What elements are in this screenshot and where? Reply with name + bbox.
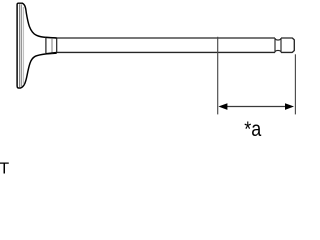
svg-text:T: T	[0, 160, 9, 175]
svg-text:*a: *a	[244, 118, 261, 141]
